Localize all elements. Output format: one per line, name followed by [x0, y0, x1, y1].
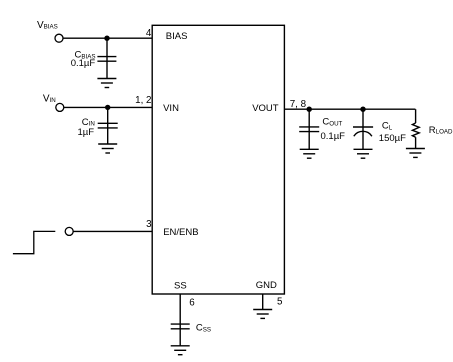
wire EN to pin 3	[73, 230, 152, 232]
capacitor CSS on pin 6	[171, 294, 190, 346]
IC body	[152, 25, 284, 294]
svg-text:0.1µF: 0.1µF	[321, 131, 346, 142]
svg-text:SS: SS	[174, 281, 187, 292]
capacitor CL (polarized)	[353, 109, 373, 149]
terminal VIN	[56, 103, 64, 111]
junction node COUT	[307, 107, 312, 112]
capacitor COUT	[299, 109, 319, 149]
svg-text:1, 2: 1, 2	[135, 95, 151, 106]
junction node CL	[360, 107, 365, 112]
svg-text:6: 6	[189, 298, 195, 309]
capacitor CBIAS	[97, 38, 116, 78]
ground (GND pin)	[253, 310, 272, 319]
enable step waveform	[13, 231, 55, 253]
terminal VBIAS	[55, 34, 63, 42]
wire GND pin 5	[262, 294, 264, 310]
svg-text:GND: GND	[256, 280, 277, 291]
svg-text:VIN: VIN	[163, 103, 179, 114]
wire VBIAS to pin 4	[63, 37, 152, 39]
svg-text:7, 8: 7, 8	[290, 99, 307, 110]
ground (CBIAS)	[97, 79, 116, 88]
svg-text:EN/ENB: EN/ENB	[163, 227, 198, 238]
resistor RLOAD	[412, 109, 419, 148]
ground (COUT)	[300, 149, 319, 158]
wire VOUT rail	[284, 108, 415, 110]
svg-text:150µF: 150µF	[379, 133, 406, 144]
wire VIN to pin 1,2	[64, 106, 152, 108]
svg-text:3: 3	[146, 219, 152, 230]
capacitor CIN	[98, 107, 118, 144]
ground (RLOAD)	[406, 149, 425, 158]
svg-text:BIAS: BIAS	[166, 31, 188, 42]
svg-text:1µF: 1µF	[77, 127, 94, 138]
ground (CL)	[354, 149, 373, 158]
svg-text:5: 5	[277, 296, 283, 307]
ground (CSS)	[171, 346, 190, 355]
ground (CIN)	[98, 144, 117, 153]
junction node BIAS	[104, 36, 109, 41]
svg-text:VOUT: VOUT	[252, 103, 279, 114]
junction node VIN	[105, 105, 110, 110]
svg-text:4: 4	[146, 28, 152, 39]
terminal EN	[65, 227, 73, 235]
svg-text:0.1µF: 0.1µF	[71, 58, 96, 69]
